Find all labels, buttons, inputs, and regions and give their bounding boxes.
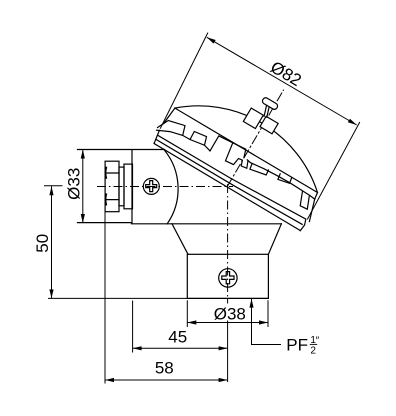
arrow 50 bottom: [49, 289, 53, 298]
svg-text:45: 45: [168, 328, 187, 347]
screw boss left half: [243, 108, 263, 128]
screw boss and flange (rotated group): [243, 94, 286, 137]
dim 58 line: [105, 379, 228, 381]
arrow 58 right: [219, 378, 228, 382]
gland collar: [124, 164, 133, 209]
arrow 58 left: [105, 378, 114, 382]
arrow 45 left: [133, 346, 142, 350]
svg-text:50: 50: [33, 234, 52, 253]
head screw: [143, 178, 159, 194]
head body outline: [78, 150, 282, 224]
PF leader line: [252, 299, 282, 345]
castellation tooth 6 (down): [300, 191, 309, 209]
cover screw flange: [261, 97, 278, 111]
neck screw: [219, 269, 237, 287]
cable gland hex nut: [105, 161, 119, 212]
arrow Ø33 bottom: [81, 214, 85, 223]
svg-text:″: ″: [316, 336, 320, 347]
cover screw stem: [261, 105, 272, 118]
castellation tooth 1 (up): [158, 121, 186, 136]
svg-text:Ø33: Ø33: [64, 168, 83, 200]
dim 58 extension left: [104, 212, 106, 384]
dim Ø33 line: [82, 150, 84, 224]
arrow Ø33 top: [81, 150, 85, 159]
gland step ring: [119, 167, 124, 206]
dim Ø82 extension line right: [307, 122, 360, 220]
cover rim band line 2: [158, 135, 306, 231]
neck cylinder Ø38: [187, 254, 268, 298]
castellation tooth 3 (up, long over axis): [210, 136, 246, 158]
arrow PF leader: [249, 299, 253, 308]
svg-text:58: 58: [155, 359, 174, 378]
arrow Ø82 right: [348, 119, 357, 125]
screw boss right half: [260, 116, 278, 133]
cover axis centerline: [227, 90, 283, 186]
cover rim band line 1: [156, 139, 302, 224]
cover rim bottom edge: [154, 144, 300, 231]
castellation ring edge left: [157, 130, 210, 151]
arrowheads: [49, 37, 356, 382]
dim Ø82 extension line left: [160, 33, 208, 129]
dim Ø38 extension right: [267, 300, 269, 327]
centerlines: [97, 184, 233, 298]
castellation tooth 5 (down): [278, 174, 292, 184]
arrow Ø82 left: [207, 37, 216, 43]
horizontal centerline: [97, 186, 233, 188]
dim Ø38 extension left: [186, 300, 188, 327]
dim Ø82 line: [207, 37, 357, 125]
arrow Ø38 right: [259, 320, 268, 324]
dim Ø38 line: [187, 322, 268, 324]
dome arc: [175, 106, 318, 193]
castellation centre keyway notch and mini tooth: [226, 143, 249, 169]
svg-text:PF: PF: [286, 336, 308, 355]
dim 45 line: [133, 347, 228, 349]
arrow Ø38 left: [187, 320, 196, 324]
cover rim right silhouette cap: [309, 199, 314, 221]
transition cone: [172, 224, 281, 255]
castellation tooth 2 (up): [190, 132, 207, 146]
arrow 45 right: [219, 346, 228, 350]
cover plate top edge (dome base): [175, 108, 318, 199]
cover rim left silhouette cap: [154, 130, 159, 143]
dim 50 / neck bottom extension line: [48, 297, 268, 299]
Ø33 bottom extension line: [78, 222, 132, 224]
svg-text:Ø38: Ø38: [214, 305, 246, 324]
vertical centerline: [227, 184, 229, 298]
dimensions: [44, 33, 360, 384]
common right extension (centerline extended): [227, 298, 229, 382]
dim 50 extension top: [44, 185, 63, 187]
svg-text:2: 2: [310, 345, 316, 356]
label PF 1/2": [286, 335, 319, 357]
dim 45 extension left: [132, 301, 134, 353]
dim 50 line: [51, 186, 53, 298]
cover plate left edge: [164, 108, 175, 124]
castellation tooth 4 (down): [250, 163, 269, 175]
arrow 50 top: [49, 186, 53, 195]
castellation ring edge right: [247, 160, 315, 199]
